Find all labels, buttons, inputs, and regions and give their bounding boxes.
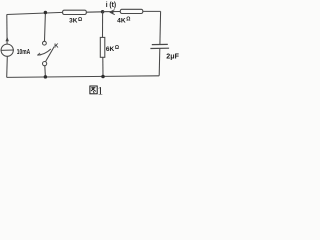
svg-text:Ω: Ω [115,45,119,51]
resistor R2 4K box [120,9,143,13]
current source circle 10mA [1,44,13,56]
svg-text:2μF: 2μF [166,51,179,60]
switch K upper terminal circle [43,41,47,45]
wire 3K to node [86,11,102,13]
resistor R1 3K box [63,10,87,14]
wire right vertical lower [158,48,161,75]
switch K lower terminal circle [43,62,47,66]
capacitor C1 bottom plate [150,47,169,49]
switch K blade [46,47,55,62]
wire node to 6K [102,12,104,38]
svg-text:1: 1 [97,84,103,97]
current source arrow [6,37,9,42]
wire bottom [7,76,160,78]
svg-text:Ω: Ω [126,17,130,23]
node switch-bottom junction dot [44,75,48,79]
svg-text:Ω: Ω [78,17,82,23]
current source bar [1,49,14,51]
svg-text:4K: 4K [117,18,126,25]
wire left vertical upper [6,15,8,45]
wire top-left horizontal [7,12,63,14]
svg-text:3K: 3K [69,18,78,25]
wire switch branch lower [44,66,47,77]
node B bottom junction dot [101,75,105,79]
current arrow i(t) [110,11,114,14]
wire 4K to top-right corner [143,10,161,12]
wire left vertical lower [6,56,9,77]
node switch-top junction dot [44,11,48,15]
svg-text:10mA: 10mA [17,49,30,56]
wire 6K to bottom [102,57,104,76]
node A top junction dot [101,10,105,14]
svg-text:i (t): i (t) [106,0,117,9]
resistor R3 6K box [100,37,105,57]
capacitor C1 top plate [152,43,168,45]
wire node to 4K [103,11,121,13]
switch K closing arc arrow [37,49,50,55]
caption glyph tu (figure) [90,86,97,94]
wire right vertical upper [159,11,162,44]
svg-text:6K: 6K [106,46,115,53]
wire switch branch upper [44,13,47,42]
